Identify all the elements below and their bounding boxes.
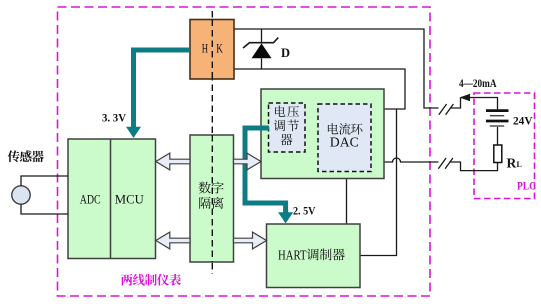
PLC dashed boundary box <box>474 93 535 199</box>
divider between ADC and MCU <box>110 139 112 259</box>
label voltage regulator line3 器 <box>281 134 293 145</box>
svg-text:H: H <box>202 41 208 56</box>
label digital isolation line2 隔离 <box>199 197 223 209</box>
block regulator + current loop DAC (outer) <box>261 89 384 179</box>
svg-text:2. 5V: 2. 5V <box>293 203 316 217</box>
diode D stem top <box>261 29 263 43</box>
svg-text:4—20mA: 4—20mA <box>459 76 497 90</box>
svg-text:3. 3V: 3. 3V <box>102 111 126 125</box>
wire battery to resistor <box>497 127 499 145</box>
svg-text:HART: HART <box>278 249 307 264</box>
fat arrow: isolation to MCU (upper left) <box>156 153 190 170</box>
fat arrow: isolation to HART (lower right) <box>234 232 267 249</box>
4-20mA arrowhead <box>460 94 471 102</box>
wire: current-loop DAC output down to HART modulator top <box>346 179 348 225</box>
inner dashed box: current loop DAC <box>318 104 371 172</box>
isolation dashed line (galvanic barrier) <box>211 11 213 274</box>
dashed isolation line through block <box>211 135 213 262</box>
fat arrow: isolation to DAC block (upper right) <box>234 153 262 170</box>
label current loop 电流环 <box>328 123 363 135</box>
teal power rail: regulator to HART (2.5V) <box>245 128 286 213</box>
battery 24V plates <box>486 111 509 126</box>
wire: 4-20mA arrow shaft to battery <box>461 98 498 110</box>
wire: upper loop into PLC with jog up <box>451 98 461 109</box>
dashed isolation line through HK <box>211 20 213 80</box>
sensor circle <box>12 186 30 204</box>
label modulator 调制器 <box>307 248 345 260</box>
svg-text:ADC: ADC <box>80 193 101 207</box>
svg-text:D: D <box>281 46 290 60</box>
sensor wires to ADC <box>21 176 68 186</box>
2.5V arrowhead into HART modulator <box>278 212 293 223</box>
wire: lower loop into PLC with jog down <box>450 162 498 171</box>
svg-text:24V: 24V <box>513 114 533 128</box>
svg-text:DAC: DAC <box>330 135 359 150</box>
svg-text:L: L <box>517 160 522 169</box>
svg-text:PLC: PLC <box>517 179 536 193</box>
block HK (loop interface) <box>190 20 234 80</box>
label voltage regulator line1 电压 <box>275 106 299 117</box>
block HART modulator <box>267 224 361 288</box>
svg-text:K: K <box>216 41 223 56</box>
diode D cathode bar with zener bends <box>243 38 278 48</box>
diode D stem bottom <box>261 58 263 69</box>
wire: loop+ from HK top to right side <box>234 29 439 108</box>
3.3V arrowhead into MCU <box>126 127 141 138</box>
svg-text:MCU: MCU <box>115 193 144 207</box>
resistor RL body <box>494 145 502 163</box>
teal power rail: HK to MCU supply (3.3V) <box>134 50 191 127</box>
block ADC/MCU <box>68 139 156 259</box>
fat arrow: isolation to MCU (lower left) <box>156 232 190 249</box>
label sensor 传感器 <box>8 150 44 162</box>
wire break symbol (upper) <box>439 104 454 115</box>
outer dashed boundary: two-wire instrument enclosure <box>58 7 431 296</box>
svg-text:R: R <box>507 155 517 170</box>
wire: HK bottom to regulator input <box>234 69 405 109</box>
diode D triangle <box>252 43 272 58</box>
wire: loop return from regulator block with hop over vertical wire <box>384 158 439 162</box>
wire break symbol (lower) <box>438 158 453 169</box>
label digital isolation line1 数字 <box>199 182 224 194</box>
label voltage regulator line2 调节 <box>274 120 299 132</box>
label two-wire instrument 两线制仪表 <box>121 274 181 286</box>
block digital isolation <box>190 135 234 262</box>
inner dashed box: voltage regulator <box>269 103 306 152</box>
wire: node to HART modulator right side <box>360 109 397 256</box>
